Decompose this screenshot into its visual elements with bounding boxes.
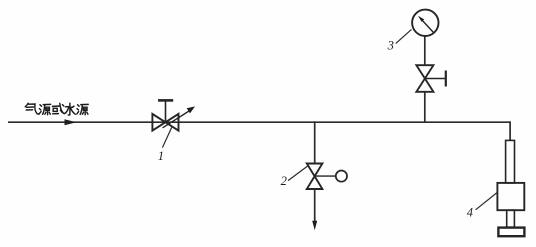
valve V1 stem	[165, 100, 167, 122]
leader line for label 3	[396, 29, 412, 43]
leader line for label 1	[162, 127, 171, 147]
valve V3 handle bar	[445, 71, 447, 87]
nozzle 4 foot base	[498, 228, 524, 237]
水	[68, 103, 70, 115]
svg-text:2: 2	[281, 174, 287, 188]
svg-text:3: 3	[387, 39, 394, 53]
wire drain below valve V2	[314, 189, 316, 222]
wire branch down to valve V2	[314, 121, 316, 163]
wire corner down to nozzle 4	[509, 122, 510, 141]
valve V3 side stem	[425, 78, 445, 80]
valve V1 body (bowtie)	[152, 114, 178, 131]
valve V1 adjustability arrow	[163, 110, 191, 128]
或	[52, 105, 59, 107]
valve V2 stem to handwheel	[315, 175, 336, 177]
valve V2 body (vertical bowtie)	[307, 164, 323, 190]
leader line for label 4	[476, 193, 497, 210]
pressure gauge G (circle)	[412, 10, 438, 36]
nozzle 4 upper tube	[506, 140, 515, 183]
svg-text:4: 4	[467, 205, 473, 219]
wire valve V3 up to gauge	[424, 36, 426, 66]
valve V2 handwheel circle	[336, 171, 347, 182]
源	[40, 105, 42, 106]
气	[25, 103, 28, 107]
源	[78, 105, 80, 106]
label 气源或水源 (source text)	[25, 103, 88, 115]
valve V3 body (vertical bowtie)	[416, 65, 433, 92]
wire main supply line	[8, 121, 510, 123]
leader line for label 2	[288, 166, 308, 181]
svg-text:1: 1	[158, 149, 164, 163]
drain arrow (down)	[312, 221, 317, 230]
flow arrow on main line	[65, 119, 77, 125]
nozzle 4 lower stem	[507, 210, 515, 227]
wire branch up to valve V3	[424, 92, 426, 123]
valve V1 handle T-bar	[158, 99, 173, 102]
nozzle 4 body box	[497, 183, 524, 210]
gauge needle	[421, 19, 434, 33]
